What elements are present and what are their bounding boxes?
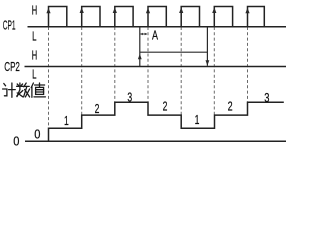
svg-text:L: L: [32, 29, 36, 44]
svg-text:CP2: CP2: [4, 59, 20, 74]
svg-text:2: 2: [228, 98, 233, 113]
svg-text:0: 0: [34, 126, 40, 141]
svg-text:H: H: [32, 2, 37, 17]
svg-text:L: L: [32, 67, 36, 82]
svg-text:A: A: [152, 28, 158, 42]
svg-text:H: H: [32, 48, 37, 63]
svg-text:1: 1: [64, 113, 69, 128]
svg-text:3: 3: [127, 89, 132, 104]
svg-text:0: 0: [13, 134, 19, 149]
svg-text:2: 2: [163, 99, 168, 114]
svg-text:2: 2: [95, 101, 100, 116]
svg-text:CP1: CP1: [3, 17, 16, 32]
svg-text:3: 3: [264, 90, 269, 105]
svg-text:1: 1: [195, 112, 200, 127]
